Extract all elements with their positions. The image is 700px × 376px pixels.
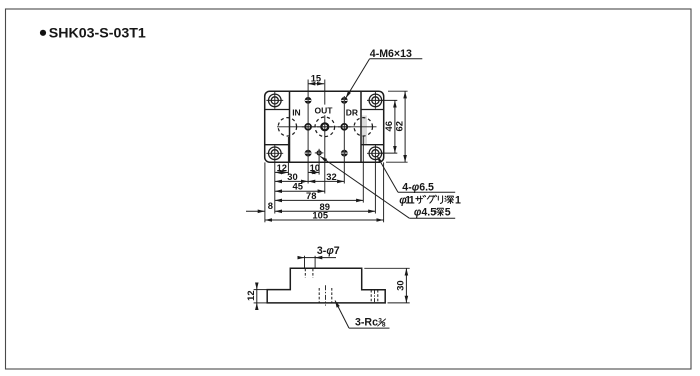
svg-text:φ4.5: φ4.5: [414, 206, 436, 218]
dimension 12 bottom row A: [275, 162, 289, 173]
counterbore hole bottom-right: [367, 145, 384, 162]
counterbore hole bottom-left: [266, 145, 283, 162]
svg-text:78: 78: [306, 190, 316, 201]
extension line plate left edge: [264, 162, 266, 222]
callout dia4.5 depth5: [320, 156, 455, 218]
Rc hole centerline: [325, 285, 327, 305]
kanji fukasa (depth): [445, 196, 454, 203]
svg-text:5: 5: [445, 206, 451, 218]
front view outline: [267, 268, 385, 303]
corner pad line top-left: [265, 109, 290, 111]
corner pad line top-right: [361, 109, 384, 111]
extension line IN port: [287, 137, 289, 175]
small hole 4.5 bottom: [315, 151, 324, 155]
corner pad line bottom-right: [361, 144, 384, 146]
corner pad line bottom-left: [265, 144, 290, 146]
callout 3-Rc 3/8: [335, 301, 390, 329]
hidden hole dia7 left line: [304, 269, 306, 278]
svg-text:SHK03-S-03T1: SHK03-S-03T1: [49, 25, 146, 41]
dimension 8 outside arrow: [246, 200, 273, 212]
callout 4-dia6.5 / counterbore: [377, 156, 461, 206]
hidden counterbore right end right line: [377, 290, 379, 303]
centerline right M6 column: [343, 96, 345, 184]
dimension 30 front right: [364, 268, 409, 303]
counterbore hole top-right: [367, 92, 384, 109]
svg-text:30: 30: [395, 280, 406, 290]
hidden hole dia7 right line: [312, 269, 314, 278]
callout 3-dia7: [298, 245, 340, 268]
port label OUT: [314, 105, 334, 115]
svg-text:φ11: φ11: [399, 194, 415, 206]
dimension 46 right side: [379, 100, 398, 153]
svg-text:10: 10: [310, 162, 320, 173]
svg-text:8: 8: [268, 200, 273, 211]
dimension 62 right side: [386, 91, 408, 162]
centerline left M6 column: [307, 80, 309, 184]
svg-text:15: 15: [311, 72, 321, 83]
svg-text:32: 32: [326, 171, 336, 182]
svg-text:8: 8: [382, 322, 386, 329]
dimension 78 bottom row D: [275, 190, 364, 201]
kana za: [416, 195, 426, 203]
gray shading band inside right boss edge: [362, 116, 367, 145]
svg-text:3-φ7: 3-φ7: [317, 245, 340, 257]
svg-text:62: 62: [393, 121, 404, 131]
OUT port hole: [317, 123, 333, 130]
dimension 10 bottom row A: [308, 162, 320, 173]
dimension 30 bottom row B: [275, 171, 308, 182]
hidden Rc thread left line: [318, 288, 320, 303]
kana ri: [438, 196, 442, 204]
kanji fukasa (depth): [435, 208, 444, 215]
dimension 12 front left: [245, 285, 268, 308]
M6 tapped hole top-right: [341, 97, 348, 104]
centerline OUT column upper: [324, 80, 326, 105]
svg-text:3-Rc: 3-Rc: [355, 316, 378, 328]
plate outline: [265, 91, 384, 162]
svg-text:DR: DR: [346, 108, 358, 118]
svg-text:OUT: OUT: [315, 105, 334, 115]
extension line right corner column: [374, 162, 376, 214]
dimension 89 bottom row E: [275, 201, 376, 212]
svg-text:12: 12: [277, 162, 287, 173]
svg-text:IN: IN: [292, 107, 301, 117]
M6 tapped hole top-left: [305, 97, 312, 104]
boss left edge: [289, 92, 291, 162]
svg-text:45: 45: [293, 181, 303, 192]
M6 tapped hole bottom-right: [341, 150, 348, 157]
dimension 45 bottom row C: [275, 181, 325, 192]
gauge hole left middle: [302, 124, 315, 130]
counterbore centerline: [374, 290, 376, 303]
hidden Rc thread right line: [331, 288, 333, 303]
hidden counterbore right end left line: [370, 290, 372, 303]
DR hidden port dashed circle: [354, 118, 372, 136]
dimension 105 bottom row F: [265, 210, 384, 221]
extension line left corner column: [274, 162, 276, 214]
dimension 32 bottom row B: [308, 171, 344, 182]
centerline OUT column lower: [324, 115, 326, 193]
OUT hidden thread dashed circle: [315, 117, 335, 137]
IN hidden port dashed circle: [278, 118, 296, 136]
M6 tapped hole bottom-left: [305, 150, 312, 157]
extension line small hole 4.5: [318, 149, 320, 175]
svg-text:1: 1: [455, 194, 461, 206]
title bullet: [40, 30, 46, 36]
svg-text:105: 105: [312, 210, 328, 221]
svg-text:12: 12: [245, 290, 256, 300]
extension line DR port: [362, 137, 364, 203]
svg-text:4-φ6.5: 4-φ6.5: [402, 181, 434, 193]
kana gu: [427, 195, 436, 203]
horizontal centerline middle row: [277, 126, 377, 128]
gauge hole right middle: [338, 124, 351, 130]
extension line plate right edge: [383, 162, 385, 222]
counterbore hole top-left: [266, 92, 283, 109]
svg-text:4-M6×13: 4-M6×13: [370, 48, 412, 60]
boss right edge: [360, 92, 362, 162]
callout 4-M6x13: [346, 48, 423, 98]
